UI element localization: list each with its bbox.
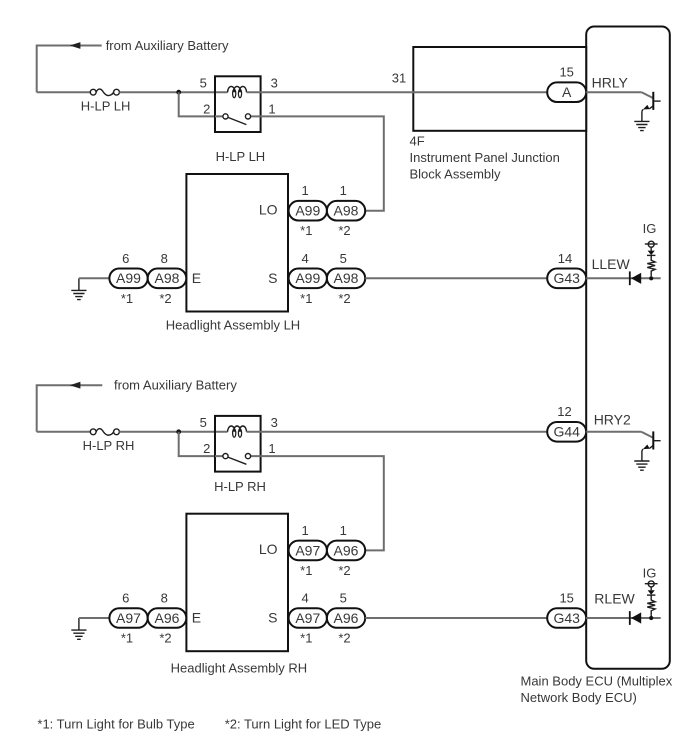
svg-text:14: 14 — [558, 251, 572, 266]
svg-text:5: 5 — [340, 591, 347, 606]
arrow from auxiliary battery LH — [70, 42, 81, 49]
node junction LH — [176, 90, 181, 95]
svg-text:A99: A99 — [116, 270, 141, 286]
svg-text:S: S — [268, 610, 277, 626]
wire relay pin 3 to connector G44 — [247, 431, 548, 433]
wire HRY2 inside ECU — [586, 431, 641, 433]
wire battery feed LH — [37, 46, 102, 93]
svg-text:A97: A97 — [116, 610, 141, 626]
svg-text:5: 5 — [200, 415, 207, 430]
wire battery feed RH — [37, 385, 103, 432]
svg-text:2: 2 — [203, 441, 210, 456]
svg-text:Headlight Assembly RH: Headlight Assembly RH — [171, 660, 308, 675]
svg-text:4F: 4F — [410, 133, 425, 148]
wire HRLY inside ECU — [586, 91, 641, 93]
wire relay pin 3 to connector A — [247, 91, 548, 93]
svg-text:G43: G43 — [553, 610, 580, 626]
wire S RH to G43 — [365, 617, 547, 619]
svg-text:*2: Turn Light for LED Type: *2: Turn Light for LED Type — [225, 717, 382, 732]
svg-text:5: 5 — [340, 251, 347, 266]
wire LH branch to relay pin 2 — [179, 92, 215, 116]
connector A98 pin 8 LH E — [148, 251, 187, 306]
svg-text:G43: G43 — [553, 270, 580, 286]
svg-text:15: 15 — [559, 591, 573, 606]
svg-text:*1: *1 — [300, 631, 312, 646]
svg-text:IG: IG — [643, 566, 657, 581]
svg-text:A98: A98 — [334, 203, 359, 219]
svg-text:HRLY: HRLY — [592, 75, 629, 91]
resistor and IG node LLEW — [645, 241, 658, 280]
headlight assembly RH box — [186, 514, 288, 652]
node junction RH — [176, 429, 181, 434]
svg-text:1: 1 — [340, 523, 347, 538]
connector A99 pin 1 LH LO — [289, 183, 327, 238]
svg-text:A: A — [562, 84, 572, 100]
svg-text:15: 15 — [559, 65, 573, 80]
connector A99 pin 6 LH E — [109, 251, 147, 306]
wire fuse row LH left — [37, 91, 91, 93]
svg-text:*1: *1 — [300, 223, 312, 238]
svg-text:*2: *2 — [338, 631, 350, 646]
svg-text:*2: *2 — [159, 631, 171, 646]
transistor HRLY driver — [641, 92, 660, 122]
svg-text:G44: G44 — [553, 424, 580, 440]
connector A98 pin 5 LH S — [327, 251, 365, 306]
ground headlight LH — [78, 278, 80, 290]
svg-text:Main Body ECU (Multiplex: Main Body ECU (Multiplex — [521, 674, 673, 689]
svg-text:*2: *2 — [338, 223, 350, 238]
svg-text:H-LP LH: H-LP LH — [216, 149, 266, 164]
diode LLEW — [630, 271, 641, 285]
svg-text:H-LP LH: H-LP LH — [81, 98, 131, 113]
wire RH branch to relay pin 2 — [179, 432, 215, 456]
svg-text:HRY2: HRY2 — [594, 412, 631, 428]
svg-text:A98: A98 — [334, 270, 359, 286]
connector A96 pin 5 RH S — [327, 591, 365, 646]
svg-text:8: 8 — [161, 251, 168, 266]
connector A97 pin 4 RH S — [289, 591, 327, 646]
svg-text:31: 31 — [392, 71, 406, 86]
wire ground to connector E RH — [79, 617, 110, 619]
svg-text:S: S — [268, 270, 277, 286]
transistor HRY2 driver — [641, 431, 660, 461]
wire LLEW inside ECU — [586, 277, 661, 279]
connector G43 pin 15 — [547, 591, 586, 628]
svg-text:4: 4 — [301, 251, 308, 266]
svg-text:1: 1 — [301, 523, 308, 538]
wire fuse to relay RH — [119, 431, 227, 433]
svg-text:*2: *2 — [338, 563, 350, 578]
connector A99 pin 4 LH S — [289, 251, 327, 306]
connector G43 pin 14 — [547, 251, 586, 288]
svg-text:4: 4 — [301, 591, 308, 606]
svg-text:*2: *2 — [338, 291, 350, 306]
resistor and IG node RLEW — [645, 581, 658, 620]
svg-text:*1: *1 — [121, 631, 133, 646]
connector A96 pin 8 RH E — [148, 591, 187, 646]
relay H-LP LH — [215, 76, 261, 132]
relay switch RH — [215, 454, 261, 465]
connector A97 pin 6 RH E — [109, 591, 147, 646]
svg-text:Instrument Panel Junction: Instrument Panel Junction — [410, 150, 560, 165]
svg-text:*1: *1 — [300, 291, 312, 306]
diode RLEW — [630, 611, 641, 625]
ground HRLY transistor — [634, 121, 649, 130]
svg-text:H-LP RH: H-LP RH — [83, 438, 135, 453]
svg-text:*1: *1 — [121, 291, 133, 306]
wire ground to connector E LH — [79, 277, 110, 279]
svg-text:H-LP RH: H-LP RH — [214, 479, 266, 494]
svg-text:from Auxiliary Battery: from Auxiliary Battery — [106, 38, 229, 53]
svg-text:*1: *1 — [300, 563, 312, 578]
svg-text:Block Assembly: Block Assembly — [410, 166, 502, 181]
connector A96 pin 1 RH LO — [327, 523, 365, 578]
svg-text:1: 1 — [268, 101, 275, 116]
svg-text:A96: A96 — [334, 610, 359, 626]
svg-text:IG: IG — [643, 221, 657, 236]
svg-text:6: 6 — [122, 251, 129, 266]
svg-text:Network Body ECU): Network Body ECU) — [521, 690, 637, 705]
relay H-LP RH — [215, 416, 261, 472]
wire fuse to relay LH — [119, 91, 227, 93]
arrow from auxiliary battery RH — [70, 382, 81, 389]
svg-text:3: 3 — [271, 75, 278, 90]
wire S LH to G43 — [365, 277, 547, 279]
svg-text:A99: A99 — [295, 203, 320, 219]
connector A97 pin 1 RH LO — [289, 523, 327, 578]
svg-text:A96: A96 — [334, 542, 359, 558]
svg-text:3: 3 — [271, 415, 278, 430]
svg-text:LO: LO — [259, 541, 278, 557]
svg-text:Headlight Assembly LH: Headlight Assembly LH — [166, 317, 300, 332]
svg-text:A98: A98 — [155, 270, 180, 286]
svg-text:5: 5 — [200, 75, 207, 90]
ECU box Main Body ECU — [586, 27, 670, 669]
svg-text:RLEW: RLEW — [594, 591, 635, 607]
svg-text:1: 1 — [301, 183, 308, 198]
svg-text:A99: A99 — [295, 270, 320, 286]
svg-text:LO: LO — [259, 202, 278, 218]
svg-text:E: E — [192, 270, 201, 286]
headlight assembly LH box — [186, 174, 288, 312]
connector A98 pin 1 LH LO — [327, 183, 365, 238]
wire relay pin 1 to LO connector RH — [261, 456, 384, 550]
svg-text:6: 6 — [122, 591, 129, 606]
wire RLEW inside ECU — [586, 617, 661, 619]
ground headlight RH — [78, 618, 80, 630]
svg-text:A96: A96 — [155, 610, 180, 626]
connector G44 pin 12 — [547, 404, 586, 442]
svg-text:12: 12 — [557, 404, 571, 419]
svg-text:A97: A97 — [295, 542, 320, 558]
fuse H-LP RH — [90, 429, 119, 435]
relay coil LH — [228, 86, 247, 97]
svg-text:*2: *2 — [159, 291, 171, 306]
svg-text:2: 2 — [203, 101, 210, 116]
junction block 4F Instrument Panel Junction Block Assembly — [413, 47, 586, 131]
svg-text:A97: A97 — [295, 610, 320, 626]
relay coil RH — [228, 426, 247, 437]
relay switch LH — [215, 114, 261, 125]
connector A pin 15 junction block — [547, 65, 586, 102]
fuse H-LP LH — [90, 89, 119, 95]
svg-text:LLEW: LLEW — [592, 256, 631, 272]
ground HRY2 transistor — [634, 461, 649, 470]
svg-text:1: 1 — [340, 183, 347, 198]
svg-text:E: E — [192, 610, 201, 626]
svg-text:*1: Turn Light for Bulb Type: *1: Turn Light for Bulb Type — [37, 717, 194, 732]
wire relay pin 1 to LO connector LH — [261, 116, 384, 210]
svg-text:8: 8 — [161, 591, 168, 606]
svg-text:1: 1 — [268, 441, 275, 456]
svg-text:from Auxiliary Battery: from Auxiliary Battery — [114, 378, 237, 393]
wire fuse row RH left — [37, 431, 91, 433]
